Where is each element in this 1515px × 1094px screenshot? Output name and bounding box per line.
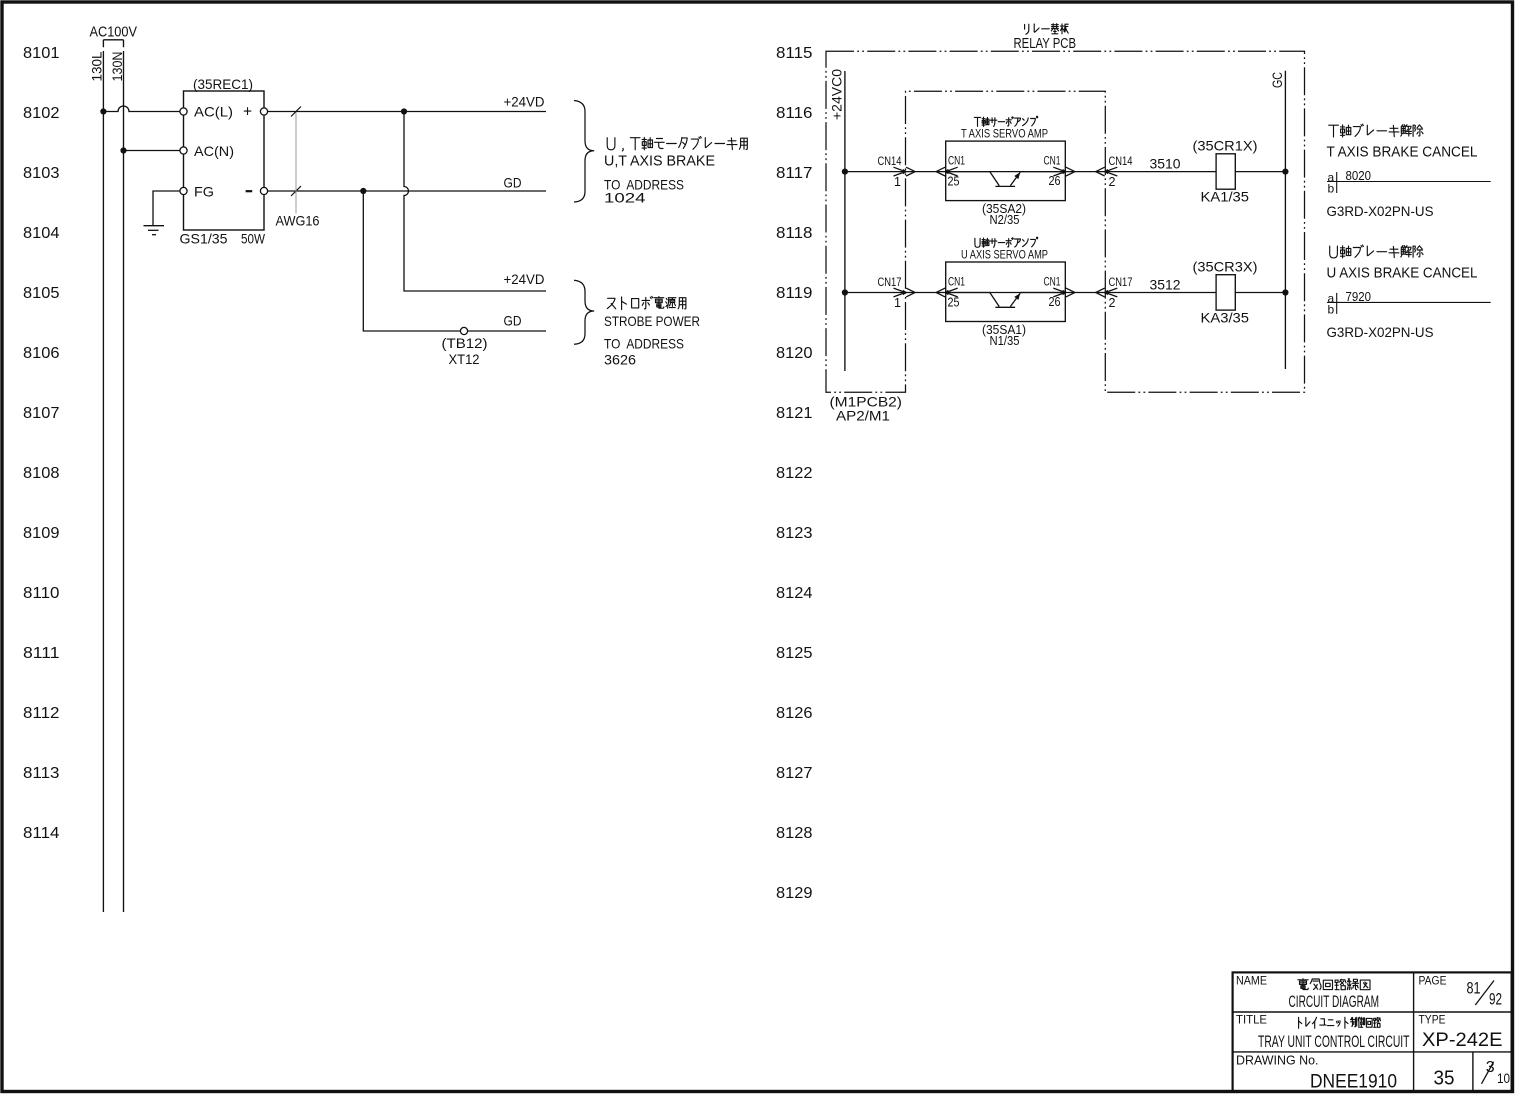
svg-text:25: 25	[948, 296, 960, 310]
svg-text:TITLE: TITLE	[1236, 1015, 1267, 1027]
svg-text:8123: 8123	[776, 525, 813, 542]
svg-text:10: 10	[1497, 1070, 1510, 1086]
brace strobe power	[574, 280, 594, 344]
svg-text:CN1: CN1	[948, 275, 965, 289]
svg-text:8122: 8122	[776, 465, 813, 482]
svg-text:8103: 8103	[23, 165, 60, 182]
svg-text:CN1: CN1	[1044, 275, 1061, 289]
svg-text:N2/35: N2/35	[990, 213, 1020, 227]
svg-text:8119: 8119	[776, 285, 813, 302]
junction GC row T	[1282, 169, 1288, 175]
wire to AC(N)	[124, 150, 181, 152]
net GC	[1284, 71, 1286, 369]
junction +24VC0 row T	[842, 169, 848, 175]
svg-text:U AXIS SERVO AMP: U AXIS SERVO AMP	[961, 248, 1048, 262]
junction +24VD branch	[401, 108, 407, 114]
svg-text:8116: 8116	[776, 105, 813, 122]
connector CN17 pin1	[894, 288, 916, 297]
svg-text:8118: 8118	[776, 225, 813, 242]
svg-text:+24VD: +24VD	[504, 271, 545, 287]
svg-text:TO ADDRESS: TO ADDRESS	[604, 336, 684, 352]
connector CN1 pin25	[936, 167, 958, 176]
svg-text:8120: 8120	[776, 345, 813, 362]
svg-text:DNEE1910: DNEE1910	[1310, 1071, 1397, 1092]
svg-text:8128: 8128	[776, 825, 813, 842]
connector CN1 pin25	[936, 288, 958, 297]
svg-text:8127: 8127	[776, 765, 813, 782]
terminal AC(N)	[180, 147, 187, 154]
svg-text:8111: 8111	[23, 645, 60, 662]
svg-text:GC: GC	[1270, 72, 1285, 88]
junction GC row U	[1282, 289, 1288, 295]
junction GD branch	[360, 188, 366, 194]
svg-text:8117: 8117	[776, 165, 813, 182]
wire U axis row	[845, 292, 1216, 294]
svg-text:(35CR1X): (35CR1X)	[1193, 138, 1258, 154]
terminal +	[260, 108, 267, 115]
svg-text:8106: 8106	[23, 345, 60, 362]
svg-text:STROBE POWER: STROBE POWER	[604, 313, 700, 329]
svg-text:b: b	[1328, 182, 1335, 196]
svg-text:(35REC1): (35REC1)	[193, 76, 253, 92]
svg-text:KA1/35: KA1/35	[1201, 189, 1250, 205]
svg-text:AWG16: AWG16	[276, 213, 320, 229]
svg-text:U,T AXIS BRAKE: U,T AXIS BRAKE	[604, 153, 715, 169]
svg-text:CIRCUIT DIAGRAM: CIRCUIT DIAGRAM	[1289, 993, 1380, 1011]
junction on 130L	[100, 108, 106, 114]
svg-text:PAGE: PAGE	[1419, 976, 1447, 988]
svg-text:8113: 8113	[23, 765, 60, 782]
svg-text:3512: 3512	[1150, 276, 1181, 292]
svg-text:3510: 3510	[1150, 155, 1181, 171]
svg-text:CN17: CN17	[1109, 275, 1133, 289]
junction +24VC0 row U	[842, 289, 848, 295]
node 130L	[89, 51, 105, 81]
label relay PCB (JP)	[1025, 24, 1069, 35]
svg-text:CN17: CN17	[878, 275, 902, 289]
svg-text:TRAY UNIT CONTROL CIRCUIT: TRAY UNIT CONTROL CIRCUIT	[1258, 1033, 1410, 1051]
svg-text:GS1/35: GS1/35	[180, 231, 228, 247]
svg-text:T AXIS BRAKE CANCEL: T AXIS BRAKE CANCEL	[1327, 145, 1478, 161]
label T axis brake cancel (JP)	[1329, 124, 1423, 137]
svg-text:8109: 8109	[23, 525, 60, 542]
svg-text:8125: 8125	[776, 645, 813, 662]
svg-text:26: 26	[1049, 295, 1061, 309]
svg-text:8121: 8121	[776, 405, 813, 422]
svg-text:DRAWING No.: DRAWING No.	[1236, 1053, 1319, 1068]
transistor output (35SA1)	[946, 293, 1066, 308]
svg-text:G3RD-X02PN-US: G3RD-X02PN-US	[1327, 203, 1434, 219]
svg-text:AC100V: AC100V	[90, 25, 138, 41]
svg-text:8114: 8114	[23, 825, 60, 842]
node 130N	[109, 52, 125, 82]
svg-text:T AXIS SERVO AMP: T AXIS SERVO AMP	[961, 127, 1048, 141]
svg-text:NAME: NAME	[1236, 976, 1267, 988]
svg-text:2: 2	[1109, 296, 1116, 310]
svg-text:8115: 8115	[776, 45, 813, 62]
rectifier GS1 (35REC1)	[184, 91, 265, 230]
svg-text:35: 35	[1434, 1067, 1455, 1089]
svg-text:130L: 130L	[89, 51, 105, 81]
wire 130L/130N supply bus	[103, 40, 123, 48]
svg-text:8126: 8126	[776, 705, 813, 722]
connector CN17 pin2	[1096, 288, 1118, 297]
servo amp box (35SA1)	[946, 262, 1066, 322]
svg-text:FG: FG	[194, 184, 214, 200]
wire branch down to strobe GD	[363, 191, 546, 331]
junction on 130N	[120, 147, 126, 153]
svg-text:50W: 50W	[241, 231, 266, 247]
svg-text:8124: 8124	[776, 585, 813, 602]
brace U,T axis brake	[574, 101, 594, 203]
svg-text:AP2/M1: AP2/M1	[836, 408, 890, 424]
wire T axis row	[845, 171, 1216, 173]
svg-text:(TB12): (TB12)	[442, 335, 488, 351]
svg-text:8112: 8112	[23, 705, 60, 722]
svg-text:+: +	[243, 104, 252, 121]
label U axis brake cancel (JP)	[1330, 245, 1423, 258]
svg-text:b: b	[1328, 303, 1335, 317]
svg-text:TYPE: TYPE	[1419, 1015, 1446, 1027]
terminal -	[260, 187, 267, 194]
svg-text:AC(L): AC(L)	[194, 104, 233, 120]
wire +24VD (brake)	[268, 111, 546, 113]
svg-text:CN14: CN14	[1109, 154, 1133, 168]
svg-text:CN14: CN14	[878, 154, 902, 168]
terminal XT12 (TB12)	[460, 327, 467, 334]
servo amp box (35SA2)	[946, 141, 1066, 201]
svg-text:XT12: XT12	[449, 351, 480, 367]
connector CN1 pin26	[1053, 288, 1075, 297]
svg-text:8020: 8020	[1346, 168, 1372, 183]
svg-text:26: 26	[1049, 174, 1061, 188]
label strobe power (JP)	[607, 296, 686, 309]
connector CN1 pin26	[1053, 167, 1075, 176]
svg-text:92: 92	[1489, 991, 1502, 1009]
svg-text:81: 81	[1467, 980, 1481, 998]
svg-text:25: 25	[948, 175, 960, 189]
svg-text:+24VD: +24VD	[504, 93, 545, 109]
svg-text:AC(N): AC(N)	[194, 143, 234, 159]
wire FG to ground	[153, 191, 180, 226]
ground	[144, 225, 165, 227]
svg-text:1024: 1024	[604, 190, 646, 206]
svg-text:XP-242E: XP-242E	[1422, 1029, 1503, 1051]
transistor output (35SA2)	[946, 172, 1066, 187]
relay coil KA1/35 (35CR1X)	[1216, 154, 1235, 189]
svg-text:1: 1	[894, 175, 901, 189]
terminal AC(L)	[180, 108, 187, 115]
svg-text:8108: 8108	[23, 465, 60, 482]
svg-text:7920: 7920	[1346, 289, 1372, 304]
relay PCB board outline (M1PCB2), notched around servo amps	[826, 51, 1305, 392]
title block	[1233, 972, 1512, 1091]
svg-text:8104: 8104	[23, 225, 60, 242]
svg-text:8101: 8101	[23, 45, 60, 62]
svg-text:RELAY PCB: RELAY PCB	[1014, 35, 1077, 52]
svg-text:3626: 3626	[604, 352, 636, 368]
net +24VC0	[844, 71, 846, 371]
svg-text:CN1: CN1	[948, 154, 965, 168]
svg-text:GD: GD	[504, 175, 522, 191]
connector CN14 pin1	[894, 167, 916, 176]
svg-text:N1/35: N1/35	[990, 334, 1020, 348]
svg-text:(35CR3X): (35CR3X)	[1193, 259, 1258, 275]
svg-text:+24VC0: +24VC0	[830, 69, 845, 120]
svg-text:CN1: CN1	[1044, 154, 1061, 168]
label U,T axis brake (JP)	[607, 137, 747, 152]
svg-text:2: 2	[1109, 175, 1116, 189]
wire to AC(L) with hop over 130N	[103, 106, 180, 112]
terminal FG	[180, 187, 187, 194]
connector CN14 pin2	[1096, 167, 1118, 176]
wire GD (brake)	[268, 190, 546, 192]
svg-text:U AXIS BRAKE CANCEL: U AXIS BRAKE CANCEL	[1327, 266, 1478, 282]
svg-text:KA3/35: KA3/35	[1201, 310, 1250, 326]
wire branch down with hop over GD	[404, 112, 546, 292]
svg-text:8110: 8110	[23, 585, 60, 602]
relay coil KA3/35 (35CR3X)	[1216, 275, 1235, 310]
svg-text:8105: 8105	[23, 285, 60, 302]
svg-text:1: 1	[894, 296, 901, 310]
svg-text:8129: 8129	[776, 885, 813, 902]
svg-text:130N: 130N	[109, 52, 125, 82]
svg-text:G3RD-X02PN-US: G3RD-X02PN-US	[1327, 324, 1434, 340]
svg-text:8102: 8102	[23, 105, 60, 122]
svg-text:8107: 8107	[23, 405, 60, 422]
cable slash marks AWG16	[291, 107, 301, 117]
svg-text:GD: GD	[504, 313, 522, 329]
